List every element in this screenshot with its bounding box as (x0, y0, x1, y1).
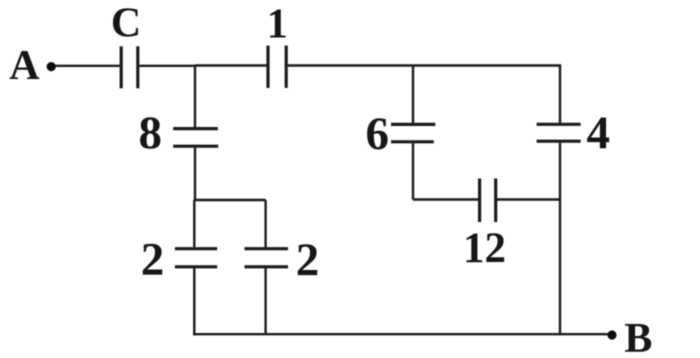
capacitor 2 (right) plates (245, 247, 289, 250)
svg-text:12: 12 (463, 225, 506, 272)
capacitor 6 plates (391, 123, 435, 126)
capacitor 4 plates (537, 123, 581, 126)
wire node J2 down to capacitor 2 (left) (193, 200, 195, 247)
wire capacitor 8 to node J2 (194, 148, 196, 200)
wire A to capacitor C (55, 65, 120, 67)
wire capacitor 2 (left) to bottom wire (193, 268, 195, 335)
capacitor 2 (left) plates (175, 247, 217, 250)
wire top node J3 down to capacitor 6 (412, 66, 414, 124)
wire node J4 to capacitor 12 (413, 198, 478, 200)
wire down to capacitor 2 (right) (264, 200, 266, 247)
wire node J1 down to capacitor 8 (194, 66, 196, 128)
wire node J1 to capacitor 1 (195, 64, 267, 66)
svg-text:A: A (9, 43, 40, 89)
capacitor 8 plates (173, 127, 218, 130)
wire capacitor 4 down to bottom wire (559, 142, 561, 334)
svg-text:4: 4 (586, 107, 610, 159)
wire node J2 split to right branch (194, 199, 266, 201)
svg-text:6: 6 (365, 108, 389, 160)
bottom wire to node B (193, 333, 611, 335)
svg-text:2: 2 (296, 234, 320, 286)
wire capacitor 12 to right branch (497, 198, 560, 200)
svg-text:C: C (111, 0, 141, 46)
wire capacitor 6 down to node J4 (412, 143, 414, 199)
terminal dot B (607, 330, 616, 339)
wire capacitor C to node J1 (139, 65, 195, 67)
svg-text:1: 1 (267, 2, 288, 48)
terminal dot A (47, 62, 56, 71)
wire capacitor 1 to top-right corner (287, 66, 560, 124)
svg-text:B: B (624, 316, 652, 358)
capacitor 1 plates (266, 46, 269, 88)
svg-text:8: 8 (138, 107, 162, 159)
svg-text:2: 2 (141, 234, 165, 286)
wire capacitor 2 (right) to bottom wire (264, 268, 266, 334)
capacitor 12 plates (478, 179, 481, 223)
capacitor C plates (120, 46, 123, 88)
